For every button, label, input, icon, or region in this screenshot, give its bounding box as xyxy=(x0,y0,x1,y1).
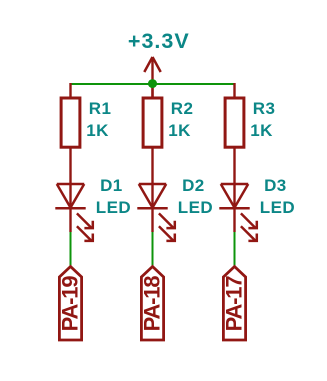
svg-text:1K: 1K xyxy=(86,121,109,140)
svg-text:PA-19: PA-19 xyxy=(58,276,83,332)
svg-text:1K: 1K xyxy=(250,121,273,140)
svg-text:PA-18: PA-18 xyxy=(140,276,165,332)
svg-text:R2: R2 xyxy=(171,99,194,118)
svg-text:D3: D3 xyxy=(264,176,287,195)
svg-text:D1: D1 xyxy=(100,176,123,195)
svg-text:+3.3V: +3.3V xyxy=(128,29,190,53)
svg-text:1K: 1K xyxy=(168,121,191,140)
svg-text:R1: R1 xyxy=(89,99,112,118)
svg-text:LED: LED xyxy=(178,198,213,217)
svg-text:LED: LED xyxy=(96,198,131,217)
svg-text:LED: LED xyxy=(260,198,295,217)
svg-text:PA-17: PA-17 xyxy=(222,276,247,332)
svg-text:R3: R3 xyxy=(253,99,276,118)
svg-text:D2: D2 xyxy=(182,176,205,195)
